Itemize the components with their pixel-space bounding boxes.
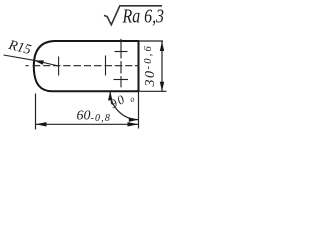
cross tick at (121,51.5) (115, 51, 128, 53)
part outline: right edge (138, 40, 140, 91)
centerline tick at x=105.5 (105, 56, 107, 76)
svg-text:Ra 6,3: Ra 6,3 (122, 6, 165, 27)
surface roughness symbol Ra 6,3 check mark (104, 6, 162, 25)
part outline: top edge (54, 40, 139, 42)
part outline: bottom edge (52, 90, 139, 92)
arrowhead: 30 dim top (160, 42, 164, 52)
arrowhead: 30 dim bottom (160, 82, 164, 92)
extension line: top (for 30 dim) (139, 40, 164, 42)
arrowhead: 90 arc right end (129, 117, 139, 122)
60 dimension line (36, 123, 139, 125)
90 degree angle arc (110, 91, 138, 119)
arrowhead: 60 dim left (36, 122, 47, 126)
extension line: bottom right (for 30 dim) (139, 90, 167, 92)
centerline tick at arc center (58, 57, 60, 76)
part outline: left rounded end R15 (34, 41, 54, 91)
R15 leader line (4, 55, 59, 66)
arrowhead: 90 arc top end (108, 91, 112, 100)
vertical chain line at x=121 (120, 39, 122, 88)
arrowhead: R15 leader on arc (34, 60, 44, 64)
arrowhead: 60 dim right (128, 122, 139, 126)
cross tick at (121,79.5) (114, 79, 129, 81)
extension line: left (for 60 dim) (35, 94, 37, 130)
extension line: right edge extended down (for 90 and 60 dims) (138, 91, 140, 128)
30 dimension line (161, 42, 163, 92)
horizontal centerline (26, 65, 140, 67)
